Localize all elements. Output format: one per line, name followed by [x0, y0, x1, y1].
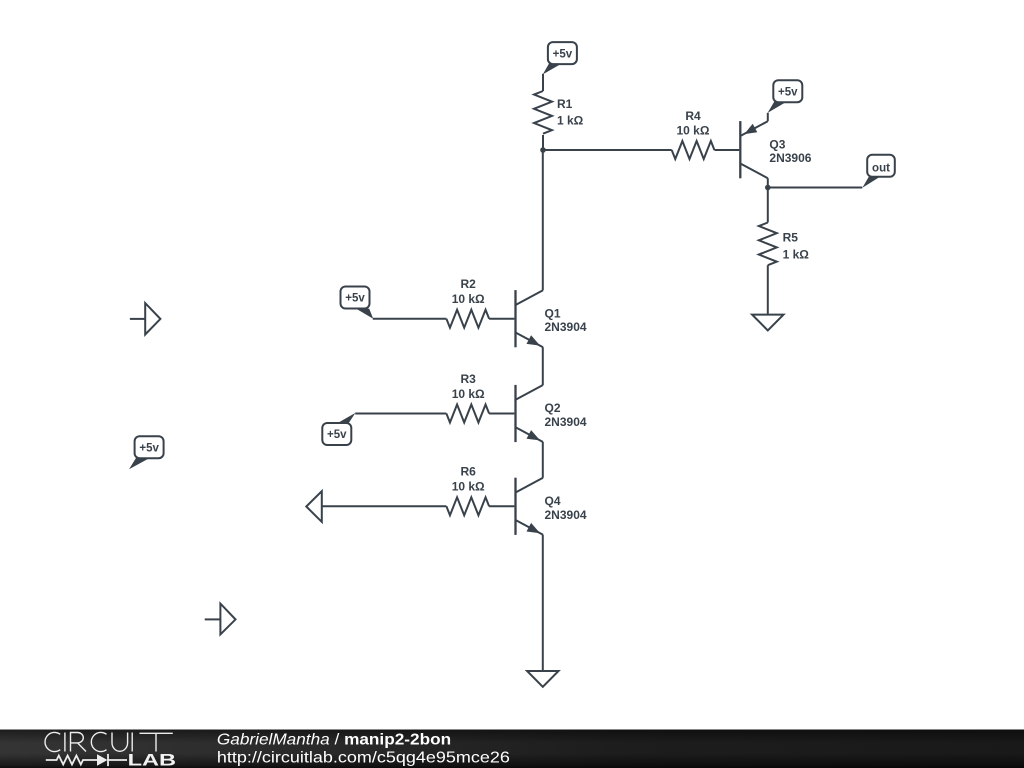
- svg-text:GabrielMantha / manip2-2bon: GabrielMantha / manip2-2bon: [217, 730, 451, 748]
- svg-text:R2: R2: [461, 277, 477, 291]
- svg-text:Q1: Q1: [545, 306, 561, 320]
- svg-text:R5: R5: [783, 231, 799, 245]
- svg-text:out: out: [872, 163, 890, 175]
- svg-text:Q4: Q4: [545, 494, 561, 508]
- svg-text:10 kΩ: 10 kΩ: [452, 480, 485, 494]
- svg-text:2N3904: 2N3904: [545, 508, 587, 522]
- svg-text:10 kΩ: 10 kΩ: [677, 123, 710, 137]
- svg-text:2N3906: 2N3906: [769, 151, 811, 165]
- svg-text:R3: R3: [461, 372, 477, 386]
- svg-text:Q3: Q3: [769, 137, 785, 151]
- svg-text:R1: R1: [557, 97, 573, 111]
- svg-text:10 kΩ: 10 kΩ: [452, 387, 485, 401]
- svg-text:2N3904: 2N3904: [545, 415, 587, 429]
- svg-text:R4: R4: [685, 109, 701, 123]
- svg-text:1 kΩ: 1 kΩ: [783, 247, 810, 261]
- svg-text:Q2: Q2: [545, 401, 561, 415]
- svg-text:1 kΩ: 1 kΩ: [557, 113, 584, 127]
- svg-text:R6: R6: [461, 465, 477, 479]
- svg-text:LAB: LAB: [128, 752, 176, 768]
- svg-text:2N3904: 2N3904: [545, 320, 587, 334]
- svg-text:10 kΩ: 10 kΩ: [452, 292, 485, 306]
- svg-text:http://circuitlab.com/c5qg4e95: http://circuitlab.com/c5qg4e95mce26: [217, 748, 510, 766]
